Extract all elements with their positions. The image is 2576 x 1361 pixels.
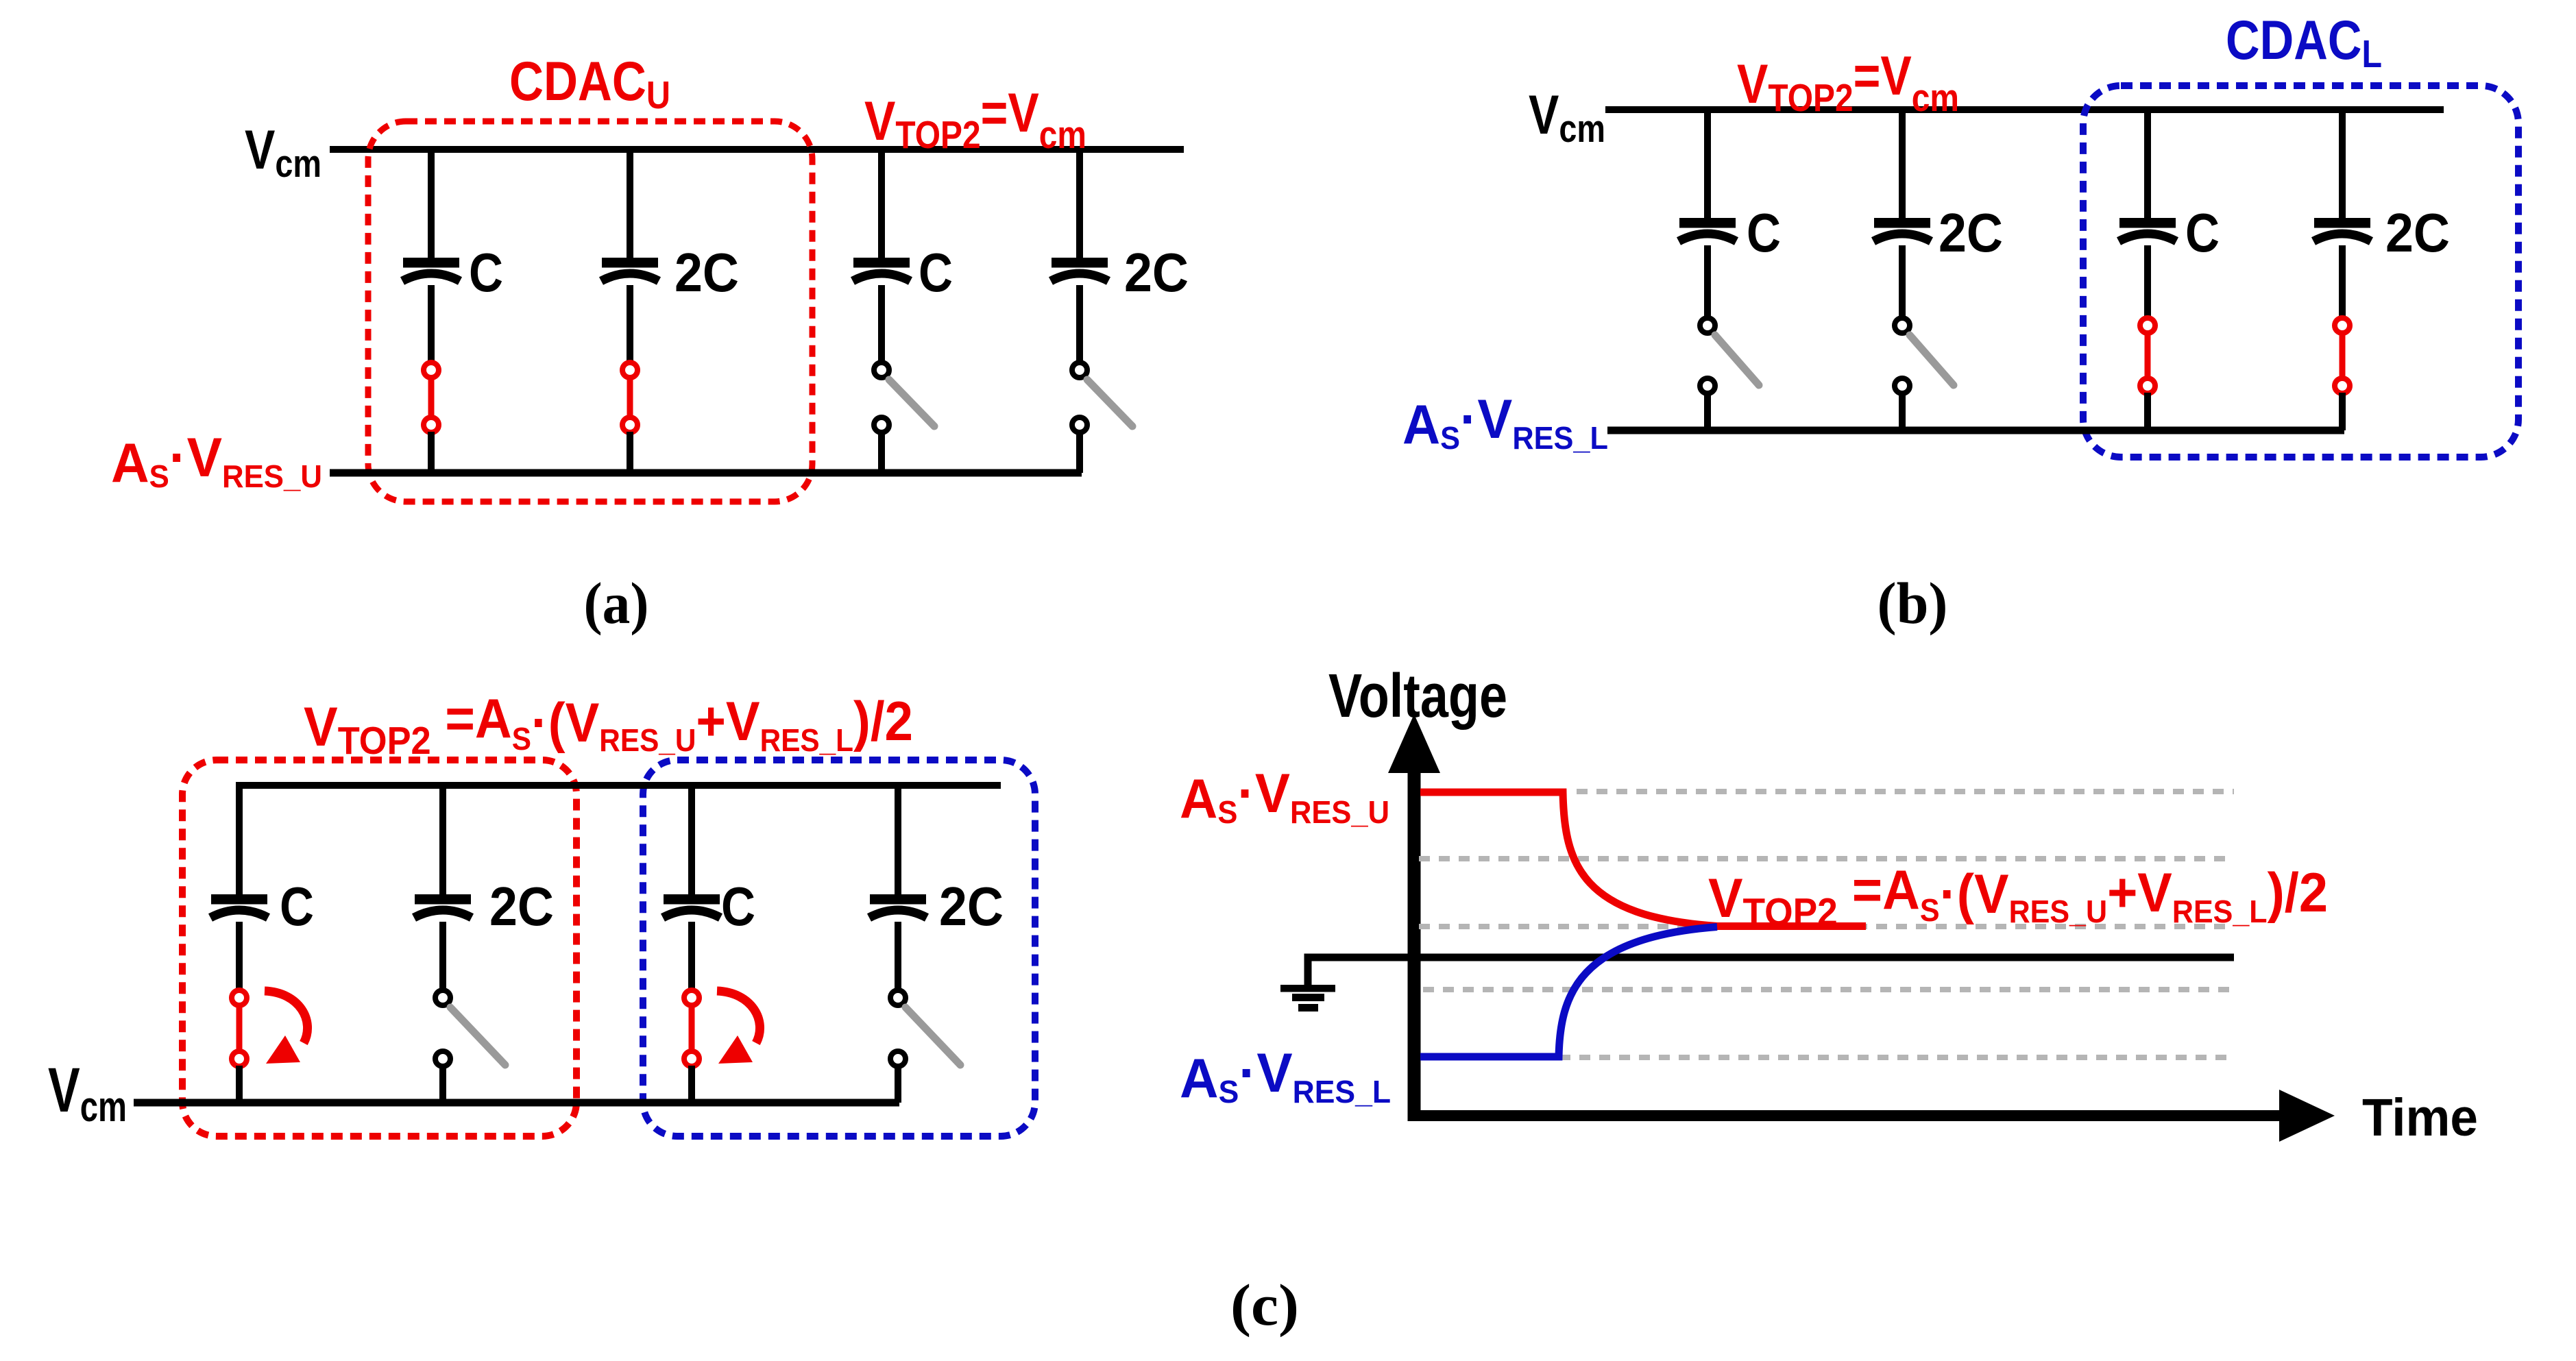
wire branch C3b middle <box>2144 245 2151 319</box>
svg-text:C: C <box>2185 202 2220 263</box>
svg-text:C: C <box>469 242 503 303</box>
wire branch C4a top <box>1076 149 1083 259</box>
axis label Voltage <box>1328 662 1507 731</box>
capacitor C2c <box>414 894 472 918</box>
switch C4c (open) <box>890 990 960 1066</box>
switch C4b (closed) <box>2335 318 2350 393</box>
gridline 4 <box>1423 987 2234 992</box>
wire branch C2c middle <box>439 922 446 992</box>
wire branch C4c top <box>895 785 901 896</box>
wire branch C3a top <box>878 149 885 259</box>
svg-text:CDACL: CDACL <box>2226 10 2382 76</box>
capacitor C2a <box>601 258 659 281</box>
svg-text:Time: Time <box>2362 1088 2478 1147</box>
wire branch C2a bottom stub <box>627 432 633 473</box>
node VTOP2=Vcm label (b) <box>1737 45 1959 120</box>
wire branch C2a middle <box>627 285 633 364</box>
svg-text:2C: 2C <box>939 876 1004 937</box>
node VTOP2 equation label (graph) <box>1708 859 2328 934</box>
capacitor C1c <box>210 894 268 918</box>
switch C2c (open) <box>435 990 505 1066</box>
wire branch C1c top <box>236 785 243 896</box>
node Vcm label (a) <box>245 119 321 186</box>
wire branch C4b middle <box>2339 245 2346 319</box>
svg-text:(a): (a) <box>584 570 649 636</box>
value label 2C (C2c) <box>489 876 554 937</box>
curve AS-VRES_U settling (red) <box>1420 792 1866 927</box>
wire Vcm level line (graph) <box>1308 954 2234 961</box>
wire top rail Vcm (b) <box>1605 106 2444 113</box>
node Vcm label (b) <box>1529 84 1605 151</box>
value label 2C (C2b) <box>1939 202 2003 263</box>
wire branch C1b bottom stub <box>1704 393 1711 430</box>
switch C4a (open) <box>1072 363 1132 432</box>
wire branch C3a middle <box>878 285 885 364</box>
wire branch C3a bottom stub <box>878 432 885 473</box>
CDAC_U label (a) <box>509 51 670 117</box>
switch C1c (closed) <box>232 990 247 1066</box>
wire bottom rail AS-VRES_L (b) <box>1607 427 2344 434</box>
value label 2C (C4a) <box>1124 242 1189 303</box>
node AS-VRES_U label (graph) <box>1180 763 1389 830</box>
value label C (C1c) <box>280 876 314 937</box>
value label C (C3c) <box>721 876 755 937</box>
wire bottom rail AS-VRES_U (a) <box>330 469 1082 477</box>
ground symbol <box>1280 957 1335 1011</box>
wire top rail Vcm (a) <box>330 146 1184 153</box>
CDAC_L label (b) <box>2226 10 2382 76</box>
gridline 5 (AS-VRES_L level) <box>1420 1055 2234 1060</box>
CDAC_L boundary box (c) <box>643 760 1035 1136</box>
switch-close arrow C3c <box>717 991 760 1064</box>
axis Time (horizontal) <box>1408 1090 2335 1142</box>
capacitor C3c <box>663 894 720 918</box>
switch-close arrow C1c <box>265 991 308 1064</box>
switch C3a (open) <box>874 363 934 432</box>
curve AS-VRES_L settling (blue) <box>1420 927 1717 1057</box>
capacitor C4a <box>1051 258 1108 281</box>
svg-text:2C: 2C <box>1124 242 1189 303</box>
svg-text:(b): (b) <box>1878 570 1948 636</box>
capacitor C1b <box>1679 218 1736 241</box>
switch C3c (closed) <box>684 990 699 1066</box>
axis label Time <box>2362 1088 2478 1147</box>
svg-text:2C: 2C <box>675 242 739 303</box>
wire branch C2a top <box>627 149 633 259</box>
caption (a) <box>584 570 649 636</box>
svg-text:C: C <box>919 242 953 303</box>
svg-text:(c): (c) <box>1230 1272 1299 1338</box>
switch C2a (closed) <box>622 363 637 432</box>
svg-text:CDACU: CDACU <box>509 51 670 117</box>
value label 2C (C4c) <box>939 876 1004 937</box>
switch C3b (closed) <box>2140 318 2155 393</box>
wire branch C4b bottom stub <box>2339 393 2346 430</box>
wire bottom rail Vcm (c) <box>134 1099 899 1107</box>
axis Voltage (vertical) <box>1388 714 1440 1121</box>
switch C1a (closed) <box>424 363 439 432</box>
node AS-VRES_L label (graph) <box>1180 1042 1391 1109</box>
value label C (C1b) <box>1747 202 1781 263</box>
switch C1b (open) <box>1700 318 1759 393</box>
caption (c) <box>1230 1272 1299 1338</box>
wire top rail (c) <box>236 782 1001 789</box>
node VTOP2 equation label (c) <box>304 688 913 763</box>
value label C (C3b) <box>2185 202 2220 263</box>
wire branch C3c middle <box>688 922 695 992</box>
value label C (C3a) <box>919 242 953 303</box>
wire branch C1c bottom stub <box>236 1066 243 1103</box>
wire branch C4a middle <box>1076 285 1083 364</box>
node Vcm label (c) <box>48 1055 127 1131</box>
svg-text:C: C <box>280 876 314 937</box>
capacitor C4b <box>2313 218 2371 241</box>
wire branch C1b middle <box>1704 245 1711 319</box>
wire branch C4c middle <box>895 922 901 992</box>
switch C2b (open) <box>1895 318 1954 393</box>
wire branch C3b bottom stub <box>2144 393 2151 430</box>
wire branch C3c bottom stub <box>688 1066 695 1103</box>
node AS-VRES_U label (a) <box>111 427 322 494</box>
gridline 2 <box>1419 856 2234 861</box>
capacitor C3b <box>2119 218 2176 241</box>
CDAC_L boundary box (b) <box>2083 86 2518 457</box>
svg-text:2C: 2C <box>489 876 554 937</box>
wire branch C1c middle <box>236 922 243 992</box>
value label 2C (C4b) <box>2385 202 2450 263</box>
wire branch C3b top <box>2144 110 2151 219</box>
value label 2C (C2a) <box>675 242 739 303</box>
node AS-VRES_L label (b) <box>1402 389 1608 456</box>
wire branch C3c top <box>688 785 695 896</box>
gridline 1 (AS-VRES_U level) <box>1577 789 2234 794</box>
CDAC_U boundary box (c) <box>182 760 576 1136</box>
caption (b) <box>1878 570 1948 636</box>
wire branch C1a bottom stub <box>428 432 435 473</box>
wire branch C4c bottom stub <box>895 1066 901 1103</box>
capacitor C1a <box>402 258 460 281</box>
capacitor C3a <box>853 258 910 281</box>
value label C (C1a) <box>469 242 503 303</box>
svg-text:C: C <box>721 876 755 937</box>
svg-text:Voltage: Voltage <box>1328 662 1507 731</box>
wire branch C2b middle <box>1899 245 1906 319</box>
capacitor C2b <box>1873 218 1931 241</box>
wire branch C2c bottom stub <box>439 1066 446 1103</box>
wire branch C1a middle <box>428 285 435 364</box>
wire branch C2c top <box>439 785 446 896</box>
wire branch C2b bottom stub <box>1899 393 1906 430</box>
svg-text:2C: 2C <box>2385 202 2450 263</box>
CDAC_U boundary box (a) <box>368 121 812 502</box>
capacitor C4c <box>869 894 927 918</box>
wire branch C4a bottom stub <box>1076 432 1083 473</box>
svg-text:2C: 2C <box>1939 202 2003 263</box>
svg-text:C: C <box>1747 202 1781 263</box>
wire branch C1b top <box>1704 110 1711 219</box>
node VTOP2=Vcm label (a) <box>864 82 1086 157</box>
wire branch C1a top <box>428 149 435 259</box>
gridline 3 (settle level) <box>1419 924 2234 929</box>
wire branch C2b top <box>1899 110 1906 219</box>
wire branch C4b top <box>2339 110 2346 219</box>
